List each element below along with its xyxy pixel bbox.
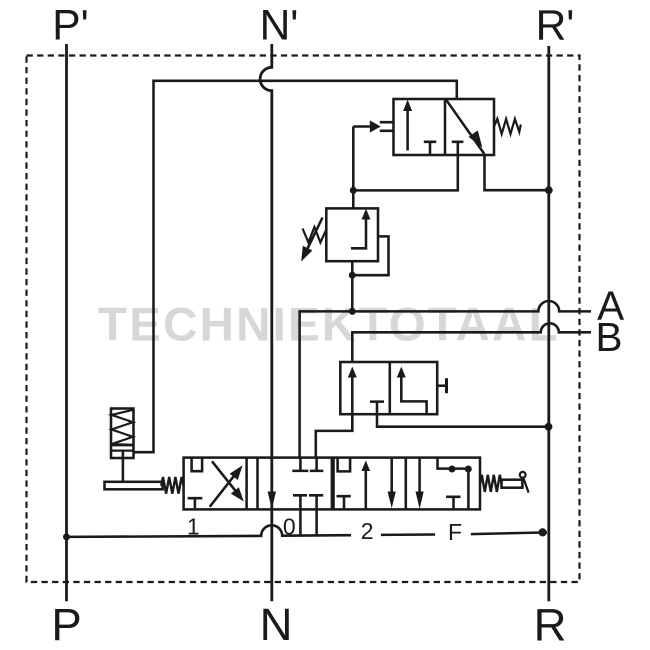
- label F: [448, 519, 462, 545]
- main valve V1 body: [184, 458, 480, 510]
- svg-text:P: P: [51, 599, 81, 650]
- svg-text:N: N: [260, 599, 293, 650]
- label N': [260, 2, 299, 49]
- V1 section 2 up arrow: [365, 466, 368, 510]
- arrowhead N line into valve section 0: [268, 492, 276, 510]
- lever bar right: [502, 480, 523, 488]
- V1 section 0 drops to bottom wire: [300, 509, 316, 535]
- junction dot near R line: [539, 528, 547, 536]
- V1 section 0 bottom blocked ports: [293, 495, 323, 509]
- dashed enclosure border: [27, 56, 580, 583]
- svg-text:P': P': [52, 2, 88, 49]
- U1 hydraulic pilot triangle: [370, 120, 381, 132]
- junction dot on R line: [545, 423, 553, 431]
- label 2: [361, 518, 374, 544]
- spring between lever and V1: [161, 477, 184, 494]
- watermark TECHNIEKTOTAAL: [98, 299, 560, 352]
- detent spring zigzag: [111, 410, 134, 451]
- wire B with hop over R line: [352, 323, 591, 362]
- V1 section 2 top port square: [338, 458, 351, 472]
- label B: [595, 314, 622, 360]
- label P: [51, 599, 81, 650]
- V1 position dividers: [247, 458, 406, 510]
- label R: [534, 600, 567, 650]
- label A: [597, 283, 624, 329]
- wire U3 left port down to main valve: [316, 414, 353, 457]
- svg-text:2: 2: [361, 518, 374, 544]
- junction dot: [349, 272, 356, 279]
- U2 adjustment arrow: [305, 218, 323, 254]
- svg-text:R': R': [536, 2, 575, 49]
- pilot valve U1 body: [394, 99, 495, 155]
- junction dot on wire A: [349, 308, 356, 315]
- selector valve U3 body: [340, 362, 437, 414]
- label 0: [283, 514, 296, 540]
- svg-text:TECHNIEKTOTAAL: TECHNIEKTOTAAL: [98, 299, 560, 352]
- U1 right square blocked port: [452, 142, 464, 155]
- U3 left square up arrow: [351, 371, 354, 431]
- U1 bottom left stub wire to node: [353, 127, 458, 209]
- svg-text:F: F: [448, 519, 462, 545]
- U3 plugged pilot port: [437, 378, 446, 393]
- svg-text:N': N': [260, 2, 299, 49]
- lever handle link: [523, 478, 528, 493]
- U1 spring: [494, 119, 521, 134]
- V1 section F tank bar with dots: [438, 458, 471, 510]
- V1 section 2 down arrow: [390, 458, 393, 496]
- V1 section 0 top blocked ports: [292, 458, 323, 471]
- U2 internal arrow: [351, 214, 366, 249]
- wire U2 to node A: [351, 275, 354, 311]
- label P': [52, 2, 88, 49]
- V1 section 1 top port square: [192, 458, 203, 472]
- junction dot on R line: [545, 186, 553, 194]
- svg-text:B: B: [595, 314, 622, 360]
- port line N' / N with hop over top wire: [260, 44, 272, 601]
- relief valve U2 body: [326, 208, 378, 261]
- bottom wire P to R with hop over N: [67, 525, 548, 537]
- U1 left square up arrow: [406, 106, 409, 151]
- U2 adjustable spring: [303, 227, 327, 243]
- U1 right square diagonal arrow: [446, 100, 484, 154]
- svg-text:0: 0: [283, 514, 296, 540]
- junction dot: [350, 187, 357, 194]
- U1 pilot port lines: [380, 122, 394, 131]
- label N: [260, 599, 293, 650]
- U1 left square blocked port: [424, 142, 436, 155]
- U1 bottom right stub wire to R line: [485, 155, 549, 190]
- V1 section F down arrow: [418, 458, 421, 494]
- V1 section 1 crossed arrows: [210, 461, 240, 507]
- U2 bottom stub: [351, 261, 354, 275]
- junction dot on P line: [63, 533, 70, 540]
- port line R' / R: [547, 46, 550, 601]
- svg-text:R: R: [534, 600, 567, 650]
- V1 section F bottom blocked port: [446, 497, 460, 510]
- U2 pilot loop: [352, 236, 388, 275]
- U3 left square blocked port: [370, 402, 384, 415]
- V1 section 2 bottom blocked port: [337, 496, 351, 509]
- label R': [536, 2, 575, 49]
- detent stem: [122, 451, 125, 482]
- spring right of V1: [480, 475, 501, 492]
- detent spring box: [111, 409, 134, 459]
- label 1: [187, 514, 200, 540]
- lever handle circle: [520, 472, 526, 478]
- top wire from detent to valve U1: [134, 81, 457, 452]
- wire U3 blocked port to R line: [377, 414, 549, 427]
- wire A with hop over R line: [300, 301, 591, 458]
- svg-text:1: 1: [187, 514, 200, 540]
- V1 section 1 bottom blocked port: [188, 498, 203, 509]
- port line P' / P: [65, 44, 68, 601]
- wire into U1 pilot: [353, 125, 371, 128]
- hand lever bar left: [105, 482, 163, 490]
- U3 right square flow path with up arrow: [401, 371, 426, 415]
